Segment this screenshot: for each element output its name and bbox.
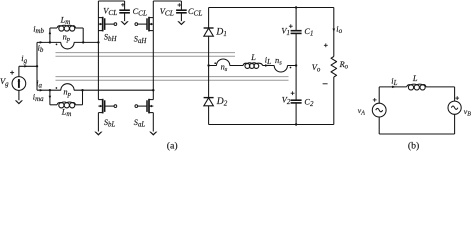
- svg-text:iL: iL: [265, 55, 271, 66]
- svg-text:L: L: [412, 74, 418, 83]
- svg-text:io: io: [336, 25, 342, 35]
- svg-text:(a): (a): [167, 140, 178, 151]
- svg-text:VCL: VCL: [160, 7, 174, 18]
- svg-text:CCL: CCL: [133, 7, 147, 18]
- svg-text:CCL: CCL: [188, 7, 202, 18]
- svg-text:L: L: [250, 53, 256, 62]
- svg-text:(b): (b): [408, 141, 419, 152]
- svg-text:VCL: VCL: [103, 7, 117, 18]
